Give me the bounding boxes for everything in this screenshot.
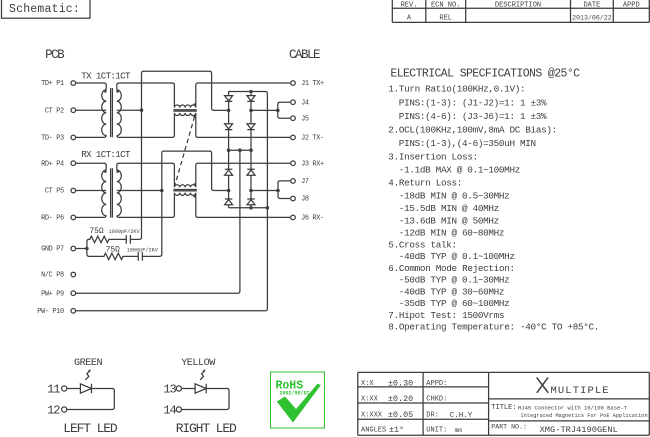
schematic title box <box>2 0 91 18</box>
V+ wire joining upper bridge bottoms <box>229 149 251 151</box>
svg-text:CHKD:: CHKD: <box>426 396 447 404</box>
svg-text:X:XX: X:XX <box>361 396 379 404</box>
V- wire joining lower bridge bottoms <box>229 207 268 209</box>
node lower bridge left mid <box>227 189 231 193</box>
svg-text:7.Hipot Test: 1500Vrms: 7.Hipot Test: 1500Vrms <box>388 310 504 321</box>
node GND junction <box>85 247 89 251</box>
svg-text:J6 RX-: J6 RX- <box>301 215 324 223</box>
svg-text:YELLOW: YELLOW <box>181 358 216 369</box>
svg-text:PW- P10: PW- P10 <box>37 308 64 316</box>
pin J8 <box>291 196 296 201</box>
wire LED2 to pin 14 <box>182 389 229 410</box>
svg-text:J2 TX-: J2 TX- <box>301 135 324 143</box>
svg-text:14: 14 <box>163 404 176 418</box>
T2 phase dot secondary <box>116 170 119 173</box>
svg-text:J1 TX+: J1 TX+ <box>301 80 324 88</box>
svg-text:CT P2: CT P2 <box>45 107 64 115</box>
pin 14 <box>176 407 181 412</box>
svg-text:J4: J4 <box>301 99 309 107</box>
node V+ center (PW+ riser) <box>238 148 242 152</box>
node V+ right <box>249 148 253 152</box>
transformer T1 secondary winding <box>117 90 122 136</box>
svg-text:TX 1CT:1CT: TX 1CT:1CT <box>81 70 131 81</box>
svg-text:PINS:(4-6): (J3-J6)=1: 1 ±3%: PINS:(4-6): (J3-J6)=1: 1 ±3% <box>399 111 547 122</box>
wire RX center-tap riser down to RC branch <box>142 191 161 257</box>
svg-text:DATE: DATE <box>583 2 600 10</box>
pin P9 <box>71 291 76 296</box>
svg-text:11: 11 <box>47 383 60 397</box>
pin P5 <box>71 188 76 193</box>
svg-text:-40dB TYP @ 30~60MHz: -40dB TYP @ 30~60MHz <box>399 286 504 297</box>
RoHS check mark <box>277 384 321 423</box>
svg-text:UNIT:: UNIT: <box>426 427 447 435</box>
svg-text:4.Return Loss:: 4.Return Loss: <box>388 178 462 189</box>
svg-text:GND P7: GND P7 <box>41 246 64 254</box>
choke L1 top winding with input lead from T1 secondary top <box>117 83 290 108</box>
wire T2 secondary center tap to riser <box>117 190 162 192</box>
pin J3 <box>291 161 296 166</box>
transformer T1 core <box>111 88 113 137</box>
T1 phase dot secondary <box>116 90 119 93</box>
svg-text:±0.30: ±0.30 <box>388 378 413 388</box>
wire TX center-tap riser down to RC branch <box>130 110 141 239</box>
svg-text:LEFT LED: LEFT LED <box>63 421 118 436</box>
choke L2 top winding with lead from T2 secondary top, out to J3 <box>117 163 290 187</box>
svg-text:A: A <box>407 14 412 22</box>
ECN revision table <box>392 0 649 22</box>
LED1 light arrow <box>85 371 89 380</box>
svg-text:3.Insertion Loss:: 3.Insertion Loss: <box>388 152 478 163</box>
transformer T1 primary winding <box>102 90 107 136</box>
svg-text:8.Operating Temperature: -40°C: 8.Operating Temperature: -40°C TO +85°C. <box>388 322 599 333</box>
node upper bridge left mid <box>227 109 231 113</box>
pin P6 <box>71 215 76 220</box>
svg-text:PW+ P9: PW+ P9 <box>41 290 64 298</box>
svg-text:-15.5dB MIN @ 40MHz: -15.5dB MIN @ 40MHz <box>399 203 499 214</box>
svg-text:J7: J7 <box>301 178 309 186</box>
node J4/J5 bracket mid <box>276 109 280 113</box>
wire P2 to T1 primary center tap <box>76 109 106 111</box>
svg-text:13: 13 <box>163 383 176 397</box>
wire P6 to T2 primary bottom <box>76 215 106 217</box>
capacitor C2 1000pF/2KV (bottom branch) <box>138 252 142 261</box>
wire upper bridge mid to J4/J5 bracket <box>251 109 278 111</box>
svg-text:X:X: X:X <box>361 380 374 388</box>
choke L1 core <box>173 110 196 111</box>
dashed coupling line L1 to L2 <box>175 117 195 185</box>
wire P1 to T1 primary top <box>76 83 106 90</box>
svg-text:APPD: APPD <box>623 2 640 10</box>
choke L2 bottom winding with lead from T2 secondary bottom, out to J6 <box>117 193 290 218</box>
diode D4 (upper bridge right bottom) <box>247 110 255 150</box>
svg-text:mm: mm <box>455 427 463 434</box>
pin J2 <box>291 135 296 140</box>
pin J7 <box>291 179 296 184</box>
pin J4 <box>291 100 296 105</box>
svg-text:2002/95/EC: 2002/95/EC <box>280 391 310 397</box>
svg-text:1000pF/2KV: 1000pF/2KV <box>109 229 141 235</box>
pin P4 <box>71 161 76 166</box>
svg-text:RJ45 Connector with 10/100 Bas: RJ45 Connector with 10/100 Base-T <box>518 405 628 412</box>
diode D2 (upper bridge right top) <box>247 92 255 111</box>
svg-text:DR:: DR: <box>426 411 439 419</box>
svg-text:MULTIPLE: MULTIPLE <box>551 385 610 397</box>
svg-text:-50dB TYP @ 0.1~30MHz: -50dB TYP @ 0.1~30MHz <box>399 275 510 286</box>
svg-text:CT P5: CT P5 <box>45 188 64 196</box>
upper bridge top wire <box>229 92 268 94</box>
title block tolerance texts <box>361 378 473 435</box>
diode D3 (upper bridge left bottom) <box>225 110 233 150</box>
pin P1 <box>71 81 76 86</box>
svg-text:5.Cross talk:: 5.Cross talk: <box>388 239 457 250</box>
svg-text:ECN NO.: ECN NO. <box>431 2 460 10</box>
wire P5 to T2 primary center tap <box>76 190 106 192</box>
wire J4/J5 bracket <box>278 102 291 118</box>
company logo X MULTIPLE <box>537 377 549 392</box>
diode D6 (lower bridge right top) <box>247 150 255 190</box>
svg-text:RD+ P4: RD+ P4 <box>41 160 64 168</box>
svg-text:DESCRIPTION: DESCRIPTION <box>495 2 541 10</box>
svg-text:ANGLES: ANGLES <box>361 427 386 435</box>
node upper bridge top right column <box>249 90 253 94</box>
svg-text:J3 RX+: J3 RX+ <box>301 160 324 168</box>
svg-text:Integrated Magnetics For PoE A: Integrated Magnetics For PoE Application <box>521 413 648 419</box>
L1 phase dot top <box>193 103 196 106</box>
RoHS logo box <box>271 372 325 428</box>
title block grid <box>358 372 650 435</box>
node V- right (PW- riser) <box>266 206 270 210</box>
svg-text:TD+ P1: TD+ P1 <box>41 80 64 88</box>
diode D5 (lower bridge left top) <box>225 150 233 190</box>
pin P7 <box>71 246 76 251</box>
wire PW+ P9 to V+ node <box>76 150 240 293</box>
transformer T2 core <box>111 168 113 217</box>
svg-text:-40dB TYP @ 0.1~100MHz: -40dB TYP @ 0.1~100MHz <box>399 251 515 262</box>
LED2 light arrow <box>200 371 204 380</box>
L1 phase dot bottom <box>193 115 196 118</box>
wire lower bridge mid to J7/J8 bracket <box>251 190 278 192</box>
wire RX center-tap rail to lower bridge left input <box>162 151 229 190</box>
svg-text:APPD:: APPD: <box>426 380 447 388</box>
svg-text:-13.6dB MIN @ 50MHz: -13.6dB MIN @ 50MHz <box>399 215 499 226</box>
svg-text:-1.1dB MAX @ 0.1~100MHz: -1.1dB MAX @ 0.1~100MHz <box>399 165 520 176</box>
svg-text:REV.: REV. <box>401 2 418 10</box>
svg-text:TD- P3: TD- P3 <box>41 135 64 143</box>
pin 13 <box>176 386 181 391</box>
LED1 diode <box>67 384 92 393</box>
svg-text:±0.20: ±0.20 <box>388 394 413 404</box>
svg-text:CABLE: CABLE <box>289 48 320 62</box>
svg-text:±1°: ±1° <box>389 425 404 435</box>
svg-text:2013/06/22: 2013/06/22 <box>572 14 612 21</box>
resistor R1 75ohm (top branch) with GND wire <box>76 236 126 248</box>
svg-text:Schematic:: Schematic: <box>9 3 80 16</box>
svg-text:N/C P8: N/C P8 <box>41 272 64 280</box>
svg-text:2.OCL(100KHz,100mV,8mA DC Bias: 2.OCL(100KHz,100mV,8mA DC Bias): <box>388 125 557 136</box>
svg-text:RIGHT LED: RIGHT LED <box>176 421 237 436</box>
svg-text:PCB: PCB <box>45 48 65 62</box>
svg-text:12: 12 <box>47 404 60 418</box>
svg-text:J8: J8 <box>301 196 309 204</box>
node V- mid <box>249 206 253 210</box>
svg-text:6.Common Mode Rejection:: 6.Common Mode Rejection: <box>388 263 514 274</box>
svg-text:75Ω: 75Ω <box>106 246 120 254</box>
LED2 diode <box>182 384 207 393</box>
pin J1 <box>291 81 296 86</box>
svg-text:±0.05: ±0.05 <box>388 410 413 420</box>
svg-text:75Ω: 75Ω <box>90 228 104 236</box>
PCB side pin labels <box>37 80 64 316</box>
node V+ left <box>227 148 231 152</box>
pin 11 <box>62 386 67 391</box>
svg-text:XMG-TRJ4190GENL: XMG-TRJ4190GENL <box>540 425 618 435</box>
choke L2 core <box>173 190 196 191</box>
node T2 center tap junction <box>160 189 164 193</box>
svg-text:X:XXX: X:XXX <box>361 411 383 419</box>
svg-text:RX 1CT:1CT: RX 1CT:1CT <box>81 149 131 160</box>
svg-text:RD- P6: RD- P6 <box>41 215 64 223</box>
pin P8 <box>71 272 76 277</box>
resistor R2 75ohm (bottom branch) <box>87 249 138 260</box>
svg-text:-18dB MIN @ 0.5~30MHz: -18dB MIN @ 0.5~30MHz <box>399 191 510 202</box>
diode D7 (lower bridge left bottom) <box>225 191 233 208</box>
wire TX center-tap top rail to upper bridge left input <box>142 71 229 110</box>
L2 phase dot top <box>193 183 196 186</box>
capacitor C1 1000pF/2KV (top branch) <box>126 235 130 244</box>
diode D8 (lower bridge right bottom) <box>247 191 255 208</box>
pin P2 <box>71 108 76 113</box>
svg-text:PINS:(1-3),(4-6)=350uH MIN: PINS:(1-3),(4-6)=350uH MIN <box>399 138 536 149</box>
svg-text:PART NO.:: PART NO.: <box>491 423 527 430</box>
node upper bridge right mid <box>249 109 253 113</box>
electrical specifications text <box>388 68 599 333</box>
svg-text:-12dB MIN @ 60~80MHz: -12dB MIN @ 60~80MHz <box>399 228 504 239</box>
svg-text:GREEN: GREEN <box>74 358 102 369</box>
wire J7/J8 bracket <box>278 181 290 199</box>
diode D1 (upper bridge left top) <box>225 92 233 111</box>
svg-text:1000pF/2KV: 1000pF/2KV <box>127 247 159 253</box>
svg-text:TITLE:: TITLE: <box>491 404 516 412</box>
CABLE side pin labels <box>301 80 324 222</box>
node lower bridge right mid <box>249 189 253 193</box>
T2 phase dot primary <box>104 170 107 173</box>
svg-text:PINS:(1-3): (J1-J2)=1: 1 ±3%: PINS:(1-3): (J1-J2)=1: 1 ±3% <box>399 97 547 108</box>
svg-text:C.H.Y: C.H.Y <box>450 412 473 420</box>
svg-text:REL: REL <box>439 14 452 22</box>
L2 phase dot bottom <box>193 195 196 198</box>
wire P3 to T1 primary bottom <box>76 135 106 137</box>
wire LED1 to pin 12 <box>67 389 114 410</box>
pin P3 <box>71 135 76 140</box>
pin J6 <box>291 215 296 220</box>
wire T1 secondary center tap to riser <box>117 109 142 111</box>
wire P4 to T2 primary top <box>76 163 106 170</box>
svg-text:J5: J5 <box>301 115 309 123</box>
node T1 center tap junction <box>140 108 144 112</box>
node J7/J8 bracket mid <box>276 189 280 193</box>
pin P10 <box>71 309 76 314</box>
pin 12 <box>62 407 67 412</box>
choke L1 bottom winding with input lead from T1 secondary bottom <box>117 113 290 137</box>
transformer T2 primary winding <box>102 170 107 216</box>
transformer T2 secondary winding <box>117 170 122 216</box>
svg-text:1.Turn Ratio(100KHz,0.1V):: 1.Turn Ratio(100KHz,0.1V): <box>388 84 525 95</box>
svg-text:-35dB TYP @ 60~100MHz: -35dB TYP @ 60~100MHz <box>399 298 510 309</box>
pin J5 <box>291 116 296 121</box>
wire PW- P10 to V- riser and upper bridge top <box>76 94 267 311</box>
T1 phase dot primary <box>104 90 107 93</box>
svg-text:ELECTRICAL SPECFICATIONS @25°C: ELECTRICAL SPECFICATIONS @25°C <box>390 68 580 81</box>
